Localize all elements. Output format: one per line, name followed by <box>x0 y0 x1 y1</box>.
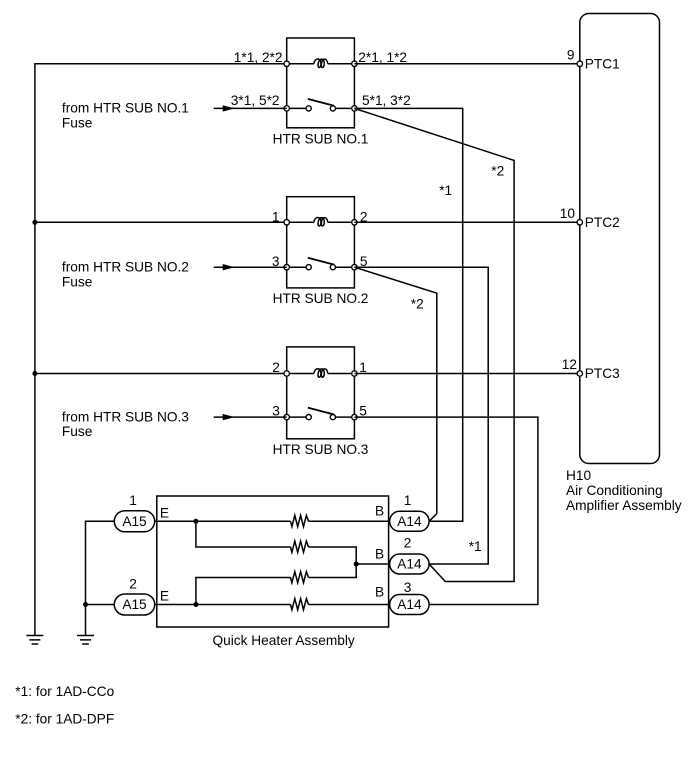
svg-text:H10: H10 <box>566 468 591 483</box>
resistor row 2 <box>291 541 309 552</box>
svg-text:PTC1: PTC1 <box>585 57 620 72</box>
resistor row 1 <box>291 515 309 526</box>
wire fuse feed arrow 3 <box>214 416 287 418</box>
pin 5 relay 1 <box>352 106 357 111</box>
svg-text:Quick Heater Assembly: Quick Heater Assembly <box>213 633 355 648</box>
wire B2 junction to A14 no.2 <box>356 563 389 565</box>
resistor row 3 <box>291 572 309 583</box>
relay U2 box HTR SUB NO.2 <box>287 197 355 288</box>
connector A14 no.2 <box>390 554 430 574</box>
svg-text:Air Conditioning: Air Conditioning <box>566 483 663 498</box>
svg-text:1: 1 <box>129 493 137 508</box>
svg-text:*2: *2 <box>411 297 424 312</box>
wire relay1 pin2 to PTC1 <box>354 63 579 65</box>
svg-text:*2: *2 <box>491 164 504 179</box>
connector A14 no.1 <box>390 511 430 531</box>
pin 3 relay 1 <box>284 106 289 111</box>
svg-text:from HTR SUB NO.1: from HTR SUB NO.1 <box>62 101 189 116</box>
inductor coil relay 1 <box>314 59 328 68</box>
wire switch row relay 2 <box>287 266 355 268</box>
svg-text:9: 9 <box>567 47 575 62</box>
pin 3 relay 3 <box>284 414 289 419</box>
switch relay 2 contacts <box>306 265 311 270</box>
svg-text:PTC3: PTC3 <box>585 366 620 381</box>
svg-text:3: 3 <box>404 580 412 595</box>
ground G2 <box>77 636 94 645</box>
inductor coil relay 2 <box>314 218 328 227</box>
svg-text:1: 1 <box>404 493 412 508</box>
svg-text:3*1, 5*2: 3*1, 5*2 <box>231 93 280 108</box>
svg-text:A15: A15 <box>122 597 147 612</box>
svg-text:PTC2: PTC2 <box>585 215 620 230</box>
svg-text:1: 1 <box>359 360 367 375</box>
switch relay 3 blade <box>308 408 334 415</box>
svg-text:12: 12 <box>562 357 577 372</box>
pin 2 relay 2 <box>352 220 357 225</box>
node row4 stub <box>193 602 198 607</box>
svg-text:HTR SUB NO.3: HTR SUB NO.3 <box>273 442 369 457</box>
wire fuse feed arrow 1 <box>214 107 287 109</box>
wire coil row relay 3 <box>287 373 355 375</box>
svg-text:A14: A14 <box>397 557 422 572</box>
wire fuse feed arrow 2 <box>214 266 287 268</box>
svg-text:2*1, 1*2: 2*1, 1*2 <box>358 50 407 65</box>
wire *2 net relay2 pin5 to A14 no.1 <box>354 267 436 521</box>
node junction bus/relay3 <box>32 371 37 376</box>
svg-text:2: 2 <box>129 577 137 592</box>
wire PTC2 row from bus to relay 2 pin 1 <box>35 221 287 223</box>
inductor coil relay 3 <box>314 369 328 378</box>
svg-text:B: B <box>375 547 384 562</box>
svg-text:2: 2 <box>272 360 280 375</box>
wire switch row relay 1 <box>287 107 355 109</box>
wire A15 no.1 to ground bus <box>86 521 115 635</box>
switch relay 3 contacts <box>306 415 311 420</box>
svg-text:1: 1 <box>272 210 280 225</box>
pin 2 relay 3 <box>284 371 289 376</box>
svg-text:E: E <box>160 505 169 520</box>
svg-text:1*1, 2*2: 1*1, 2*2 <box>234 50 283 65</box>
pin 5 relay 2 <box>352 265 357 270</box>
wire relay3 pin1 to PTC3 <box>354 373 579 375</box>
svg-text:E: E <box>160 589 169 604</box>
connector H10 amplifier box <box>580 14 660 464</box>
svg-text:*1: *1 <box>439 183 452 198</box>
wire heater row 4 <box>155 604 390 606</box>
svg-text:3: 3 <box>272 404 280 419</box>
wire PTC3 row from bus to relay 3 pin 2 <box>35 373 287 375</box>
svg-text:HTR SUB NO.1: HTR SUB NO.1 <box>273 131 369 146</box>
node B2 junction <box>354 562 359 567</box>
pin 1 relay 2 <box>284 220 289 225</box>
relay U1 box HTR SUB NO.1 <box>287 38 355 128</box>
svg-text:B: B <box>375 585 384 600</box>
svg-text:A15: A15 <box>122 514 147 529</box>
relay U3 box HTR SUB NO.3 <box>287 347 355 439</box>
svg-text:*1: for 1AD-CCo: *1: for 1AD-CCo <box>15 684 114 699</box>
svg-text:Fuse: Fuse <box>62 115 92 130</box>
svg-text:10: 10 <box>560 206 576 221</box>
pin 12 PTC3 <box>577 371 582 376</box>
pin 3 relay 2 <box>284 265 289 270</box>
svg-text:from HTR SUB NO.3: from HTR SUB NO.3 <box>62 410 189 425</box>
svg-text:HTR SUB NO.2: HTR SUB NO.2 <box>273 291 369 306</box>
pin 5 relay 3 <box>352 414 357 419</box>
wire *2 net relay1 pin5 to A14 no.2 <box>354 108 514 581</box>
wire switch row relay 3 <box>287 416 355 418</box>
wire row 3 <box>196 564 356 605</box>
node row1 stub <box>193 519 198 524</box>
node ground junction <box>83 602 88 607</box>
pin 1 relay 3 <box>352 371 357 376</box>
svg-text:from HTR SUB NO.2: from HTR SUB NO.2 <box>62 260 189 275</box>
svg-text:A14: A14 <box>397 597 422 612</box>
pin 10 PTC2 <box>577 220 582 225</box>
wire relay2 pin2 to PTC2 <box>354 221 579 223</box>
resistor row 4 <box>291 599 309 610</box>
svg-text:B: B <box>375 504 384 519</box>
svg-text:*2: for 1AD-DPF: *2: for 1AD-DPF <box>15 712 114 727</box>
connector A15 no.1 <box>114 511 154 532</box>
svg-text:5: 5 <box>359 404 367 419</box>
pin 9 PTC1 <box>577 61 582 66</box>
quick heater assembly box <box>157 496 389 627</box>
switch relay 1 contacts <box>306 106 311 111</box>
wire coil row relay 2 <box>287 221 355 223</box>
svg-text:*1: *1 <box>469 539 482 554</box>
svg-text:2: 2 <box>404 536 412 551</box>
connector A14 no.3 <box>390 595 430 615</box>
ground G1 <box>26 636 43 645</box>
wire relay3 pin5 to A14 no.3 <box>354 417 538 604</box>
svg-text:Amplifier Assembly: Amplifier Assembly <box>566 498 682 513</box>
pin 1 relay 1 <box>284 61 289 66</box>
wire heater row 1 <box>155 520 390 522</box>
svg-text:A14: A14 <box>397 514 422 529</box>
svg-text:Fuse: Fuse <box>62 424 92 439</box>
switch relay 1 blade <box>308 99 334 106</box>
svg-text:5*1, 3*2: 5*1, 3*2 <box>362 93 411 108</box>
wire *1 net relay1 pin5 to A14 no.1 <box>354 108 462 521</box>
wire coil row relay 1 <box>287 63 355 65</box>
svg-text:Fuse: Fuse <box>62 274 92 289</box>
switch relay 2 blade <box>308 258 334 265</box>
wire *1 net relay2 pin5 to A14 no.2 <box>354 267 488 564</box>
connector A15 no.2 <box>114 594 154 615</box>
wire left bus vertical with top horizontal to relay 1 pin 1 <box>35 64 287 635</box>
wire stub rows 1-2 <box>196 521 356 564</box>
pin 2 relay 1 <box>352 61 357 66</box>
wire A15 no.2 to ground bus <box>86 604 115 606</box>
node junction bus/relay2 <box>32 220 37 225</box>
